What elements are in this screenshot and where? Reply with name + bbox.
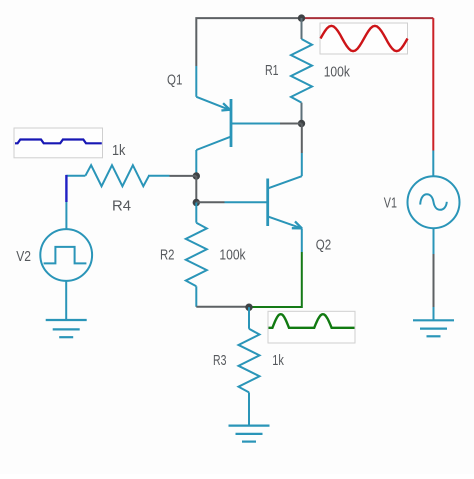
resistor R1 [291,18,312,123]
resistor R4 [66,165,169,186]
svg-text:R4: R4 [112,199,131,215]
wire blue probe V2 to R4 [65,175,67,202]
transistor Q2 (NPN, emitter bottom right) [225,153,303,252]
wire top rail gray [196,18,301,66]
svg-text:Q1: Q1 [167,73,182,89]
node junction C (R3 top) [245,304,252,311]
wire gray R2 bottom to node C [196,306,249,308]
resistor R2 [186,203,207,307]
svg-text:R3: R3 [213,353,226,369]
transistor Q1 (PNP, emitter top) [196,66,280,176]
svg-text:Q2: Q2 [316,238,331,254]
scope thumbnail red sine [320,23,408,54]
node junction A (R4 / Q1 collector) [193,172,200,179]
voltage source V1 (sine) [408,176,460,254]
wire gray Q1 base to node [280,123,302,125]
scope thumbnail green pulses [268,311,355,343]
resistor R3 [239,307,260,425]
wire teal V1 top lead [432,151,434,177]
svg-text:1k: 1k [112,143,126,159]
wire gray node B to Q2 base [196,201,224,203]
svg-text:R1: R1 [265,63,279,79]
node junction at top of R1 [298,14,305,21]
wire teal to ground [433,307,435,320]
svg-text:100k: 100k [219,248,246,264]
wire gray between node A and node B [195,176,197,203]
wire red probe (top right rail and down to V1) [302,17,434,19]
node junction B (R2 / Q2 base) [193,199,200,206]
wire gray below V1 [433,254,435,307]
svg-text:100k: 100k [324,64,351,80]
node junction R1 bottom / Q1 base [298,120,305,127]
svg-text:V2: V2 [16,249,31,265]
scope thumbnail blue square wave [14,128,103,158]
ground (below V1) [413,320,454,336]
ground (below V2) [46,320,87,337]
ground (below R3) [229,426,270,442]
wire green probe Q2 emitter to node C [249,252,302,307]
svg-text:V1: V1 [384,196,397,212]
svg-text:1k: 1k [272,353,284,369]
svg-text:R2: R2 [160,248,175,264]
wire gray node down to Q2 collector [301,124,303,154]
wire gray R4 to node A [170,175,197,177]
wire teal V2 top lead [65,202,67,229]
voltage source V2 (square wave) [40,229,92,320]
